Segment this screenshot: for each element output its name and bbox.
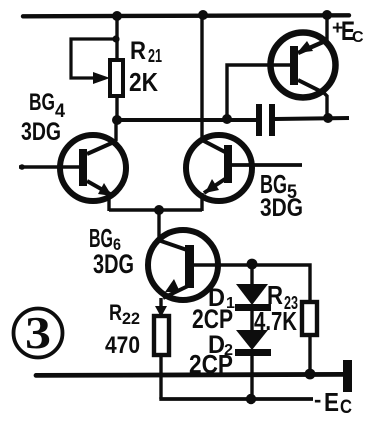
transistor BG4 xyxy=(60,135,126,201)
wire: rail B xyxy=(159,397,313,401)
wire: diode string top xyxy=(250,264,253,286)
svg-text:470: 470 xyxy=(105,332,140,359)
wire: BG6 collector up xyxy=(157,210,160,240)
label R23 xyxy=(267,280,298,313)
label D1 xyxy=(208,284,235,312)
wire: BG6 emitter down xyxy=(159,298,162,317)
figure number 3 (circled) xyxy=(14,307,63,358)
capacitor C1 right plate xyxy=(269,104,275,136)
label R22 xyxy=(109,300,140,328)
wiper arrow xyxy=(93,72,110,84)
svg-text:3DG: 3DG xyxy=(260,194,303,222)
wire: collector bus y=120 xyxy=(116,118,257,122)
svg-text:C: C xyxy=(340,397,352,418)
svg-text:2K: 2K xyxy=(129,67,158,97)
transistor BG5 xyxy=(186,135,252,201)
wire: BG5 emitter down xyxy=(200,193,203,211)
svg-text:3DG: 3DG xyxy=(93,249,134,279)
svg-text:3: 3 xyxy=(25,307,51,358)
label BG6 xyxy=(89,223,121,254)
diode D1 xyxy=(235,284,271,311)
wire: BG4 base input xyxy=(19,165,79,169)
wire: wiper loop xyxy=(71,39,116,78)
wire: BG5 collector to +Ec rail xyxy=(200,16,203,139)
label BG4 xyxy=(29,89,65,122)
label D2 xyxy=(208,331,233,359)
label +Ec xyxy=(332,16,364,46)
node: top rail / R21 junction xyxy=(112,11,122,21)
wire: R22 bottom to rail B xyxy=(159,355,162,399)
diode D2 xyxy=(235,330,271,356)
wire: BG4 emitter down xyxy=(107,194,110,211)
svg-text:4.7K: 4.7K xyxy=(254,306,297,336)
label -Ec xyxy=(314,387,352,418)
label BG5 xyxy=(260,169,297,203)
wire: BG6 base to bias chain xyxy=(194,265,310,303)
node: cap / PNP collector junction xyxy=(323,113,333,123)
svg-text:2CP: 2CP xyxy=(192,304,233,334)
transistor BG6 xyxy=(148,230,218,300)
wire: D1 to D2 xyxy=(250,311,253,331)
node: emitters / BG6 collector xyxy=(154,205,164,215)
svg-text:3DG: 3DG xyxy=(21,118,61,146)
wire: rail to R21 top xyxy=(115,16,118,62)
svg-text:E: E xyxy=(324,387,339,417)
wire: +Ec top rail xyxy=(23,13,349,18)
svg-text:BG: BG xyxy=(29,89,55,116)
wire: emitter coupling bus xyxy=(109,208,202,211)
node: diode string tap xyxy=(247,259,258,270)
node: D2 / rail B junction xyxy=(246,394,256,404)
node: top rail / PNP emitter junction xyxy=(322,10,332,20)
capacitor C1 left plate xyxy=(256,104,262,136)
node: wiper tie xyxy=(112,35,119,42)
resistor R23 body xyxy=(302,302,317,335)
wire: BG4 collector up xyxy=(114,121,116,142)
wire: BG5 base input xyxy=(232,163,302,167)
resistor R22 body xyxy=(154,316,169,355)
svg-text:R: R xyxy=(109,300,122,325)
transistor U1 (PNP, top right) xyxy=(271,33,336,98)
svg-text:C: C xyxy=(352,29,364,46)
label R21 xyxy=(130,37,162,66)
wire: PNP emitter to rail xyxy=(323,15,327,42)
node: PNP base tap xyxy=(222,114,232,124)
wire: D2 to rail B xyxy=(250,356,253,400)
wire: R21 bottom xyxy=(115,96,118,122)
node: R21 / BG4 collector / bus xyxy=(112,115,122,125)
svg-text:R: R xyxy=(130,37,146,65)
svg-text:21: 21 xyxy=(148,46,162,66)
terminal: -Ec bar xyxy=(343,360,352,392)
svg-text:22: 22 xyxy=(122,309,140,328)
svg-text:-: - xyxy=(314,387,321,412)
wire: PNP base branch xyxy=(227,65,292,119)
wire: cap right plate to output xyxy=(275,118,349,119)
wire: PNP collector down xyxy=(324,93,327,119)
wire: R23 bottom xyxy=(308,335,311,374)
wire: rail A (-Ec bus) xyxy=(36,374,343,375)
node: R23 / rail A junction xyxy=(305,369,316,380)
node: top rail / BG5 collector junction xyxy=(198,10,208,20)
potentiometer R21 body xyxy=(110,60,123,96)
arrow: emitter into R22 xyxy=(155,306,167,317)
